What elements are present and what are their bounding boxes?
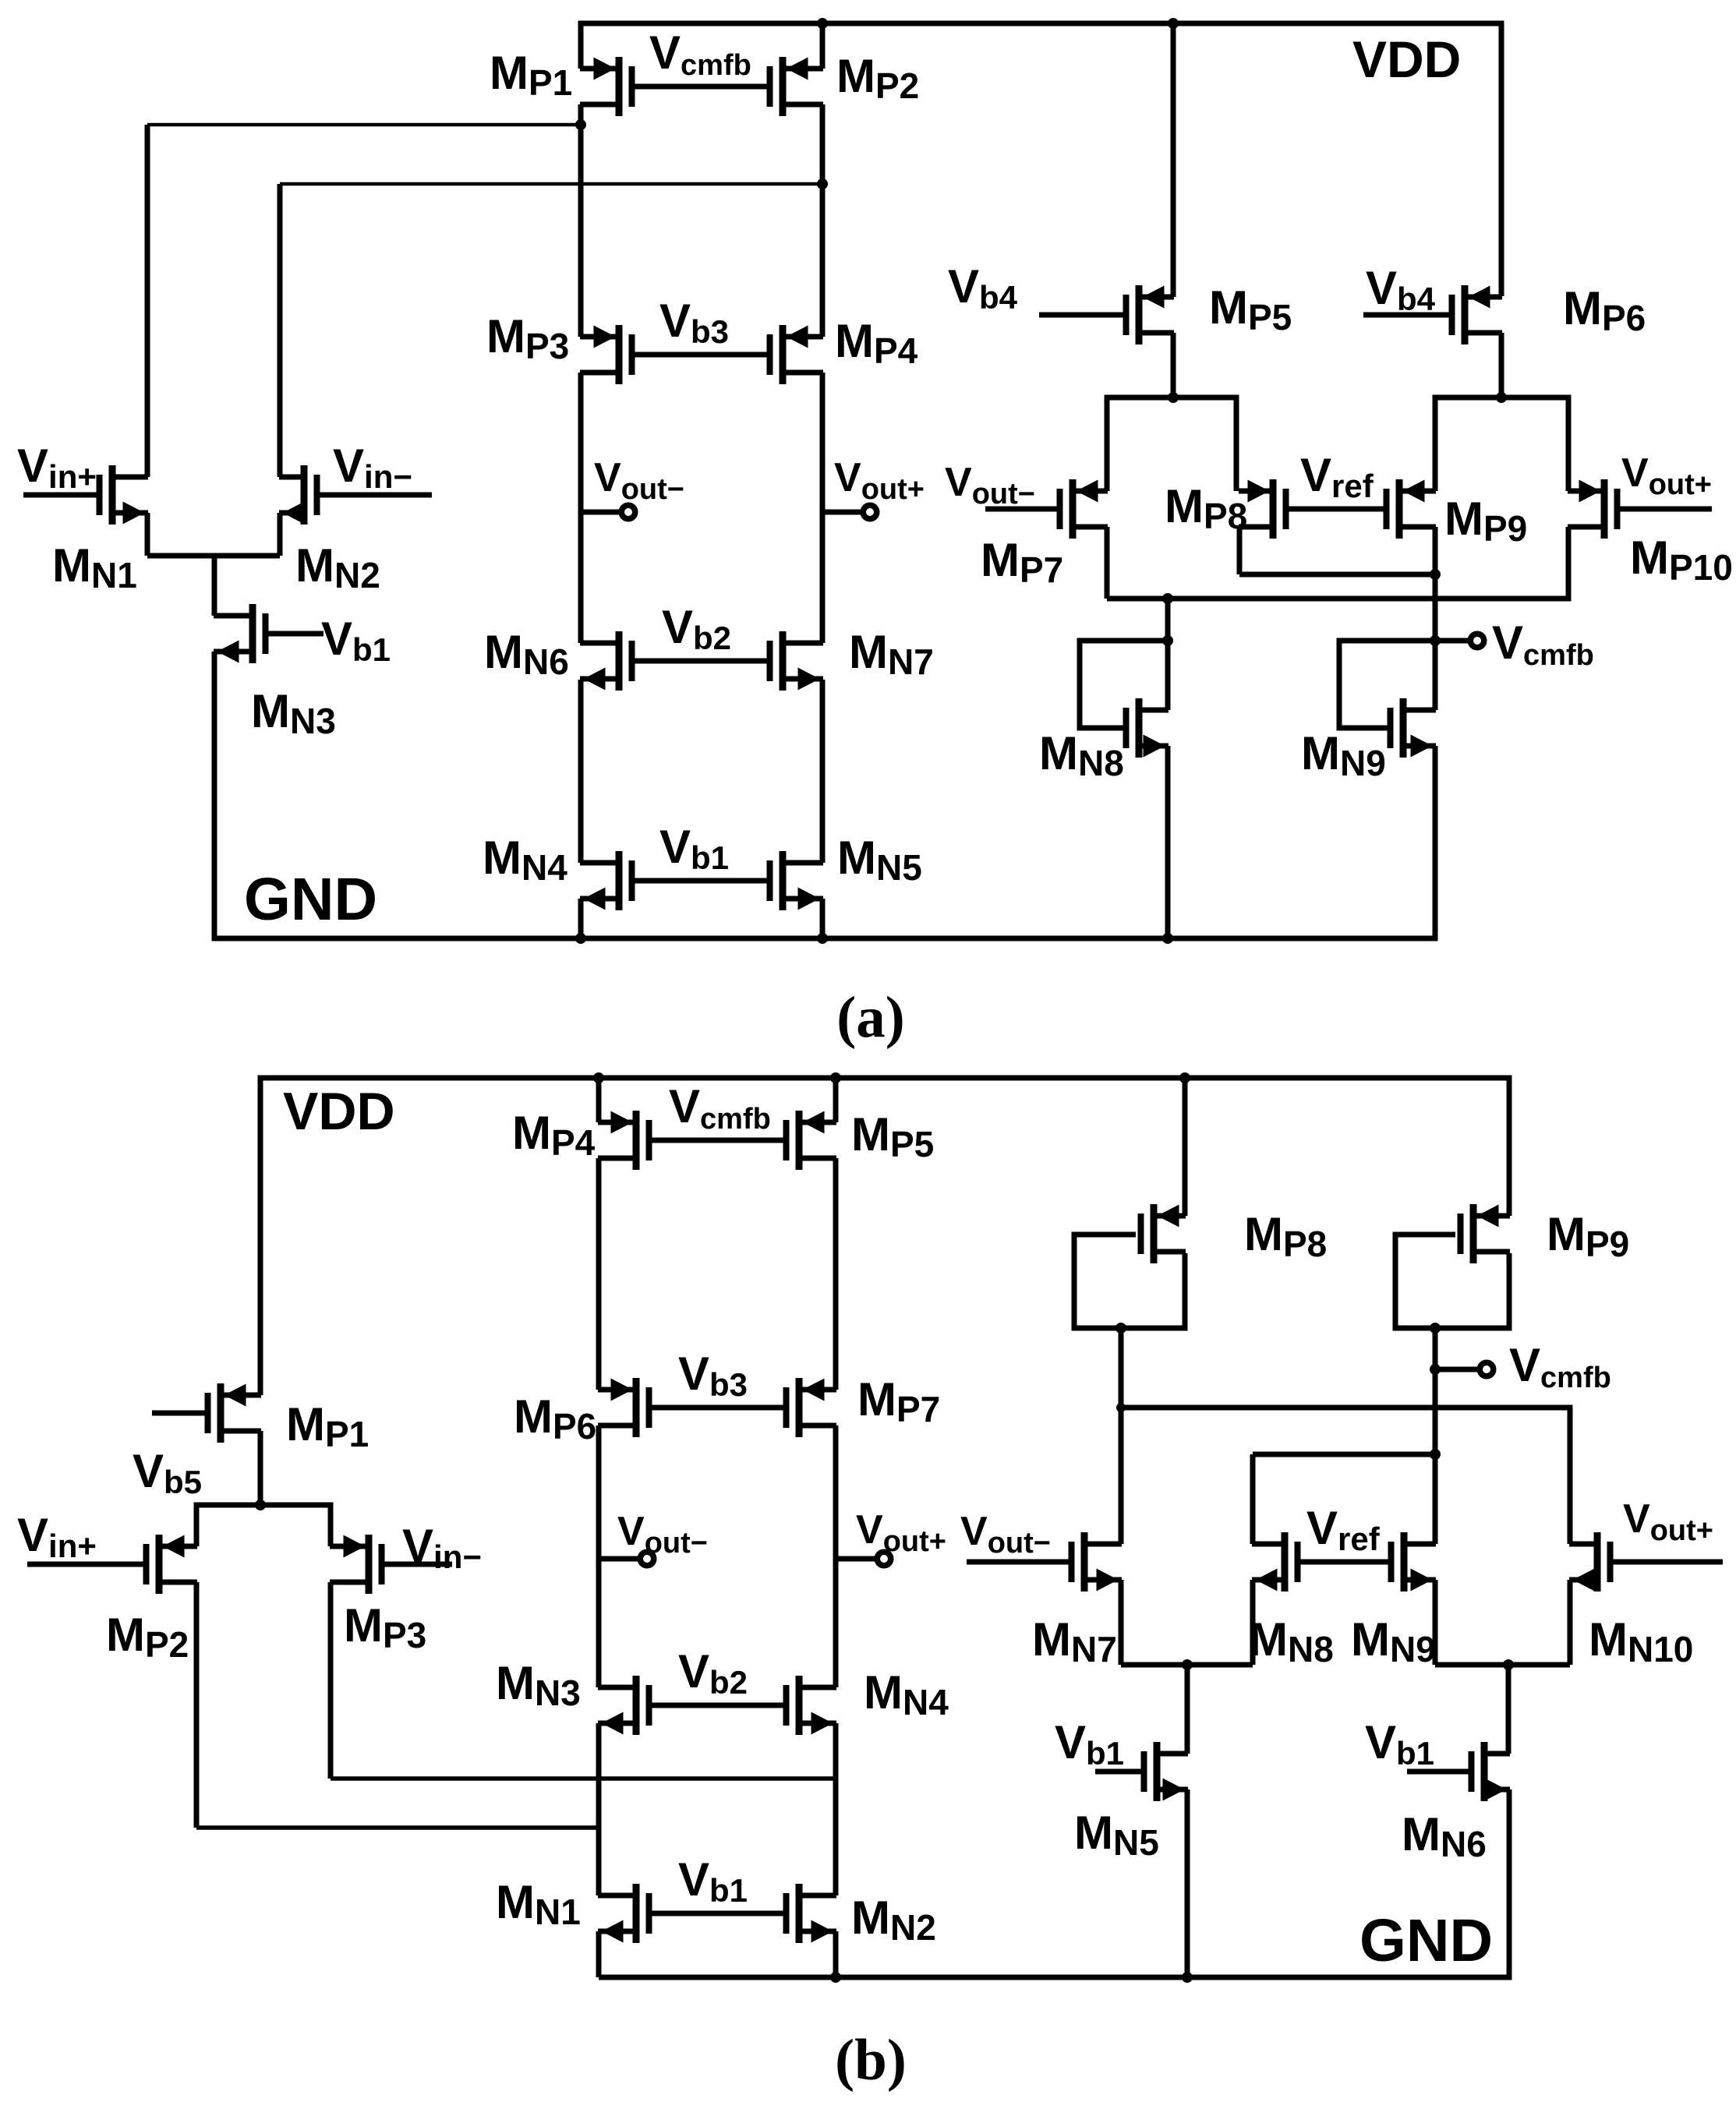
node MP2 drain feedback junction <box>817 178 828 189</box>
svg-text:MP8: MP8 <box>1244 1208 1327 1264</box>
wire MP6 drain to split node <box>1499 333 1504 397</box>
svg-text:MP2: MP2 <box>106 1609 189 1665</box>
svg-text:MN3: MN3 <box>496 1657 581 1713</box>
svg-text:Vout+: Vout+ <box>834 455 925 506</box>
wire tail down to MN6 drain (b) <box>1506 1665 1511 1754</box>
wire MP5 drain to split node <box>1171 333 1176 397</box>
node GND junction MN2 column (b) <box>830 1972 841 1983</box>
svg-text:VDD: VDD <box>1352 30 1461 88</box>
wire MN10 source to tail (b) <box>1568 1580 1573 1665</box>
svg-text:MN9: MN9 <box>1351 1613 1436 1669</box>
svg-text:MP9: MP9 <box>1547 1208 1629 1264</box>
node MP9 drain tie junction <box>1430 569 1441 580</box>
transistor MN5 <box>767 851 824 910</box>
svg-text:MN7: MN7 <box>1032 1613 1117 1669</box>
svg-text:MN1: MN1 <box>496 1876 581 1932</box>
svg-text:MP7: MP7 <box>981 534 1063 590</box>
svg-text:MP5: MP5 <box>851 1108 934 1164</box>
terminal Vout- (a) <box>621 505 635 519</box>
svg-text:Vb3: Vb3 <box>678 1348 748 1403</box>
svg-text:VDD: VDD <box>283 1082 395 1141</box>
wire MN6 source down to MN4 drain <box>578 680 584 863</box>
node MP8 drain junction (b) <box>1115 1323 1126 1334</box>
wire tail node of input pair (b) <box>196 1505 331 1546</box>
transistor MN2 <box>279 465 432 525</box>
wire Vcmfb terminal lead (a) <box>1435 638 1471 644</box>
wire MN2 source to GND (b) <box>833 1931 839 1977</box>
wire Vout- terminal lead (b) <box>599 1556 638 1562</box>
svg-text:(b): (b) <box>835 2028 907 2093</box>
wire Vb3 gate line MP6-MP7 (b) <box>649 1405 787 1411</box>
transistor MN6 (b) <box>1407 1742 1510 1801</box>
terminal Vcmfb (b) <box>1480 1362 1494 1376</box>
wire MN1 source to GND (b) <box>596 1931 602 1977</box>
wire Vout+ terminal lead (a) <box>822 510 863 515</box>
wire MN2 drain column up to feedback line <box>278 184 283 477</box>
wire MP2 drain down to MP4 source (right column) <box>820 104 826 337</box>
wire VDD rail (a) with end drops to MP1 source and MP6 source <box>581 23 1501 296</box>
transistor MP2 <box>767 57 824 116</box>
wire MP2 drain column down (b) <box>194 1582 200 1828</box>
svg-text:Vb1: Vb1 <box>659 821 729 876</box>
wire MN8 gate-drain diode loop <box>1080 641 1168 728</box>
svg-text:Vb1: Vb1 <box>1055 1716 1124 1772</box>
svg-text:(a): (a) <box>836 985 904 1050</box>
wire MP8-MP9 drain tie line <box>1239 572 1435 578</box>
transistor MP5 <box>1039 285 1174 344</box>
wire Vref gate line MN8-MN9 (b) <box>1298 1560 1391 1565</box>
wire left CMFB tail line (b) <box>1121 1662 1253 1668</box>
transistor MP9 <box>1384 479 1437 539</box>
svg-text:MP2: MP2 <box>836 50 919 106</box>
wire MN7-MN10 drain tie line (b) <box>1121 1408 1570 1544</box>
transistor MN9 (b) <box>1388 1532 1437 1592</box>
wire MN4 source down to MN2 drain (b) <box>833 1723 839 1895</box>
wire MN8 source to tail (b) <box>1250 1580 1256 1665</box>
wire MN8 drain column (b) <box>1250 1454 1256 1544</box>
svg-text:Vb3: Vb3 <box>659 295 729 350</box>
svg-text:Vref: Vref <box>1306 1502 1381 1557</box>
svg-text:Vout−: Vout− <box>617 1509 708 1560</box>
svg-text:MN4: MN4 <box>483 832 567 888</box>
svg-text:Vb4: Vb4 <box>948 260 1018 316</box>
transistor MP7 <box>985 479 1108 539</box>
node GND junction MN8 column <box>1162 933 1173 944</box>
wire MP8 drain column <box>1237 527 1243 574</box>
transistor MP1 (b) <box>152 1383 261 1443</box>
wire MP8 gate-drain diode loop (b) <box>1074 1235 1185 1328</box>
svg-text:MP7: MP7 <box>857 1373 940 1429</box>
wire MP9 drain down through Vcmfb node to MN9 drain <box>1433 527 1438 710</box>
wire MN9 source to tail (b) <box>1433 1580 1438 1665</box>
transistor MN10 (b) <box>1569 1532 1723 1592</box>
wire MP1 drain down to tail (b) <box>258 1431 263 1505</box>
transistor MN4 <box>580 851 635 910</box>
wire split to MP7 and MP8 sources <box>1107 397 1236 491</box>
wire GND rail (a) from MN3 source to MN9 source <box>214 652 1435 938</box>
wire MN7 source to tail (b) <box>1119 1580 1124 1665</box>
transistor MP6 <box>1363 285 1502 344</box>
wire MP2 drain feedback line to left cascode node <box>196 1825 599 1830</box>
svg-text:MN8: MN8 <box>1039 727 1124 783</box>
svg-text:MP10: MP10 <box>1630 532 1733 588</box>
transistor MP4 <box>767 325 824 384</box>
wire MN8 drain column <box>1165 599 1171 710</box>
node MP1 drain feedback junction <box>575 119 586 130</box>
wire Vb1 gate line MN4-MN5 <box>632 878 770 884</box>
wire MP8 drain down to MN7 drain (b) <box>1119 1328 1124 1544</box>
wire MP5 source column to VDD (b) <box>833 1078 839 1122</box>
transistor MP2 (b) <box>27 1535 197 1594</box>
wire Vcmfb gate line MP1-MP2 <box>632 84 770 90</box>
wire Vb1 gate line MN1-MN2 (b) <box>649 1911 787 1917</box>
svg-text:MP1: MP1 <box>490 47 572 103</box>
svg-text:MN5: MN5 <box>837 832 922 888</box>
transistor MN6 <box>580 631 635 691</box>
wire MP8 source column to VDD (b) <box>1183 1078 1188 1216</box>
node MP6 drain split <box>1496 392 1507 403</box>
transistor MP10 <box>1568 479 1712 539</box>
wire feedback net MN1 drain to MP1 drain <box>147 123 581 127</box>
node tail junction (b) <box>255 1500 266 1510</box>
wire MP2 source column to VDD <box>820 23 826 69</box>
wire Vref gate line MP8-MP9 <box>1286 507 1387 512</box>
wire tail down to MN5 drain (b) <box>1185 1665 1190 1754</box>
wire MN8 source to GND <box>1165 746 1171 938</box>
node right CMFB tail (b) <box>1503 1659 1514 1670</box>
transistor MN2 (b) <box>783 1884 837 1943</box>
node Vcmfb (a) <box>1430 635 1441 646</box>
wire feedback net MN2 drain to MP2 drain <box>280 182 822 186</box>
node MP5 drain split <box>1168 392 1179 403</box>
transistor MP8 <box>1239 479 1289 539</box>
node VDD junction MP4 column (b) <box>593 1072 604 1083</box>
svg-text:MP3: MP3 <box>486 310 569 366</box>
wire MP4 drain / Vout+ node down to MN7 drain <box>820 373 826 643</box>
transistor MN1 <box>23 465 148 525</box>
wire Vb2 gate line MN3-MN4 (b) <box>649 1703 787 1708</box>
transistor MP1 <box>580 57 635 116</box>
transistor MN8 <box>1123 698 1169 758</box>
svg-text:MN3: MN3 <box>251 685 336 741</box>
transistor MN1 (b) <box>598 1884 652 1943</box>
wire MN5 source to GND <box>820 899 826 938</box>
transistor MP7 (b) <box>783 1378 837 1437</box>
wire MN9 gate-drain diode loop <box>1339 641 1435 728</box>
svg-text:Vin−: Vin− <box>333 440 412 495</box>
node VDD junction MP8 column (b) <box>1179 1072 1190 1083</box>
wire MP9 drain / Vcmfb column down to MN9 drain (b) <box>1433 1328 1438 1544</box>
svg-text:Vcmfb: Vcmfb <box>649 26 751 82</box>
node VDD junction at MP2 column <box>817 18 828 29</box>
svg-text:MN10: MN10 <box>1589 1613 1693 1669</box>
wire split to MP9 and MP10 sources <box>1435 397 1568 491</box>
wire MN4 source to GND <box>578 899 584 938</box>
wire right CMFB tail line (b) <box>1435 1662 1570 1668</box>
node MP9 drain junction (b) <box>1430 1323 1441 1334</box>
wire GND rail (b) up to MN6 source <box>599 1789 1509 1977</box>
node GND junction left column <box>575 933 586 944</box>
transistor MP5 (b) <box>783 1111 837 1170</box>
transistor MN5 (b) <box>1095 1742 1188 1801</box>
node GND junction right column <box>817 933 828 944</box>
svg-text:Vb5: Vb5 <box>133 1445 202 1500</box>
transistor MN8 (b) <box>1252 1532 1301 1592</box>
transistor MP8 (b) <box>1138 1204 1186 1263</box>
terminal Vout+ (a) <box>863 505 877 519</box>
svg-text:MN8: MN8 <box>1249 1613 1334 1669</box>
wire MN1 source down to tail node <box>145 513 150 556</box>
node MN8 gate-drain junction <box>1162 635 1173 646</box>
wire MP9 gate-drain diode loop (b) <box>1395 1235 1509 1328</box>
terminal Vcmfb (a) <box>1470 634 1484 648</box>
svg-text:MN1: MN1 <box>52 539 137 595</box>
svg-text:Vb1: Vb1 <box>321 613 391 668</box>
wire MP3 drain column down (b) <box>328 1582 334 1779</box>
svg-text:MP4: MP4 <box>835 315 918 371</box>
svg-text:MN9: MN9 <box>1301 727 1386 783</box>
wire Vb2 gate line MN6-MN7 <box>632 659 770 664</box>
transistor MP3 <box>580 325 635 384</box>
wire MP4 source column to VDD (b) <box>596 1078 602 1122</box>
terminal Vout- (b) <box>640 1552 654 1566</box>
node VDD junction at MP5 column <box>1168 18 1179 29</box>
transistor MP4 (b) <box>598 1111 652 1170</box>
node MN9 drain tie junction (b) <box>1430 1449 1441 1460</box>
svg-text:Vref: Vref <box>1300 449 1374 504</box>
svg-text:MN6: MN6 <box>1402 1808 1487 1864</box>
node VDD junction MP5 column (b) <box>830 1072 841 1083</box>
svg-text:MN5: MN5 <box>1074 1807 1159 1863</box>
node left CMFB tail (b) <box>1182 1659 1193 1670</box>
wire MP4 drain down to MP6 source (b) <box>596 1158 602 1390</box>
transistor MN7 (b) <box>967 1532 1122 1592</box>
transistor MP3 (b) <box>330 1535 452 1594</box>
wire tail node of input pair (a) <box>147 553 280 559</box>
wire MP7-MP10 drain tie line to MN8 drain <box>1107 527 1568 599</box>
transistor MP6 (b) <box>598 1378 652 1437</box>
wire Vcmfb terminal lead (b) <box>1435 1367 1480 1372</box>
node MN8 drain tie junction <box>1162 593 1173 604</box>
wire Vb3 gate line MP3-MP4 <box>632 352 770 358</box>
svg-text:Vout−: Vout− <box>945 460 1035 510</box>
svg-text:MN2: MN2 <box>295 539 380 595</box>
svg-text:Vout−: Vout− <box>594 455 684 506</box>
wire MN5 source to GND (b) <box>1185 1789 1190 1977</box>
transistor MP9 (b) <box>1458 1204 1511 1263</box>
transistor MN3 <box>214 604 324 663</box>
svg-text:MP6: MP6 <box>514 1390 596 1447</box>
svg-text:Vcmfb: Vcmfb <box>1492 616 1594 672</box>
svg-text:MN2: MN2 <box>851 1892 936 1948</box>
svg-text:Vb2: Vb2 <box>662 601 731 656</box>
svg-text:Vout−: Vout− <box>960 1509 1051 1560</box>
svg-text:MP3: MP3 <box>344 1599 426 1655</box>
svg-text:MP5: MP5 <box>1209 281 1292 337</box>
wire MP5 drain down to MP7 source (b) <box>833 1158 839 1390</box>
svg-text:Vout+: Vout+ <box>1621 450 1712 501</box>
node Vcmfb (b) <box>1430 1364 1441 1375</box>
wire MP1 drain down to MP3 source (left column) <box>578 104 584 337</box>
svg-text:MP1: MP1 <box>286 1398 369 1454</box>
svg-text:Vout+: Vout+ <box>856 1507 946 1558</box>
wire MN7 source down to MN5 drain <box>820 680 826 863</box>
wire MP7 drain column <box>1105 527 1110 599</box>
svg-text:Vb4: Vb4 <box>1366 262 1436 317</box>
svg-text:GND: GND <box>244 866 377 933</box>
svg-text:Vin+: Vin+ <box>17 1509 97 1564</box>
wire MN1 drain column up to feedback line <box>145 125 150 477</box>
wire MN3 source down to MN1 drain (b) <box>596 1723 602 1895</box>
node tie line left end (b) <box>1116 1403 1126 1412</box>
wire VDD rail (b) with drops to MP1 source and MP9 source <box>260 1078 1509 1395</box>
wire MP7 drain / Vout+ node to MN4 drain (b) <box>833 1425 839 1687</box>
node GND junction MN5 column (b) <box>1182 1972 1193 1983</box>
wire Vout+ terminal lead (b) <box>836 1556 875 1562</box>
svg-text:Vb1: Vb1 <box>1365 1716 1434 1772</box>
wire Vcmfb gate line MP4-MP5 (b) <box>649 1138 787 1143</box>
terminal Vout+ (b) <box>877 1552 891 1566</box>
svg-text:Vb1: Vb1 <box>678 1853 748 1909</box>
wire MP3 drain feedback line to right cascode node <box>331 1776 836 1781</box>
wire MN8-MN9 drain tie line (b) <box>1253 1452 1435 1457</box>
svg-text:GND: GND <box>1359 1907 1493 1974</box>
svg-text:MN4: MN4 <box>864 1666 949 1722</box>
wire MN2 source down to tail node <box>278 513 283 556</box>
transistor MN4 (b) <box>783 1676 837 1735</box>
wire MP3 drain / Vout- node down to MN6 drain <box>578 373 584 643</box>
svg-text:MP4: MP4 <box>512 1107 596 1163</box>
wire Vout- terminal lead (a) <box>581 510 621 515</box>
svg-text:Vout+: Vout+ <box>1623 1496 1713 1547</box>
svg-text:MN6: MN6 <box>484 626 569 682</box>
transistor MN9 <box>1388 698 1437 758</box>
svg-text:MN7: MN7 <box>849 626 934 682</box>
transistor MN3 (b) <box>598 1676 652 1735</box>
svg-text:Vcmfb: Vcmfb <box>1509 1339 1611 1394</box>
svg-text:Vcmfb: Vcmfb <box>669 1080 771 1136</box>
svg-text:Vin+: Vin+ <box>17 440 97 495</box>
svg-text:Vin−: Vin− <box>402 1520 482 1575</box>
wire tail node down to MN3 drain <box>212 556 217 616</box>
transistor MN7 <box>767 631 824 691</box>
svg-text:MP9: MP9 <box>1444 493 1527 549</box>
svg-text:Vb2: Vb2 <box>678 1645 748 1701</box>
wire MP6 drain / Vout- node to MN3 drain (b) <box>596 1425 602 1687</box>
svg-text:MP6: MP6 <box>1563 282 1646 338</box>
wire MP5 source column to VDD <box>1171 23 1176 297</box>
